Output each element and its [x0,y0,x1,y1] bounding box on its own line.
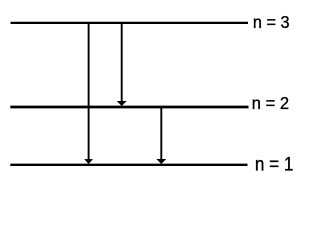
svg-text:n = 3: n = 3 [253,12,290,32]
transition arrow n=2 to n=1 (shaft) [160,107,162,160]
energy level line n=1 [10,164,247,166]
svg-text:n = 1: n = 1 [255,154,294,175]
transition arrow n=3 to n=1 (arrowhead) [84,159,93,164]
transition arrow n=3 to n=2 (arrowhead) [117,101,127,106]
transition arrow n=3 to n=2 (shaft) [121,23,123,102]
energy level line n=3 [11,22,249,24]
energy level line n=2 [10,106,248,109]
transition arrow n=3 to n=1 (shaft) [88,23,90,160]
svg-text:n = 2: n = 2 [252,93,289,113]
transition arrow n=2 to n=1 (arrowhead) [156,159,166,164]
